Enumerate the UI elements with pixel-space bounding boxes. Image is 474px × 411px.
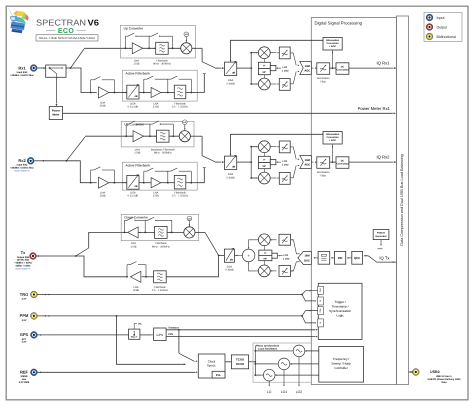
svg-text:0°: 0° [264, 252, 266, 255]
svg-text:Digital Signal Processing: Digital Signal Processing [315, 21, 363, 26]
svg-text:0-31.5dB: 0-31.5dB [128, 195, 139, 198]
svg-text:dB: dB [232, 166, 235, 169]
svg-text:LO: LO [185, 33, 188, 36]
svg-text:Synch.: Synch. [207, 364, 216, 368]
svg-text:TCXO: TCXO [236, 357, 245, 361]
svg-text:Out: Out [319, 308, 322, 312]
svg-text:PIR: PIR [338, 256, 343, 260]
svg-text:LO: LO [183, 121, 186, 124]
svg-text:Correction: Correction [336, 69, 349, 72]
svg-text:Filter: Filter [320, 80, 326, 83]
svg-text:Logic: Logic [336, 314, 344, 318]
svg-text:Model 200XA-6: Model 200XA-6 [14, 170, 30, 173]
svg-text:0-34dB: 0-34dB [226, 82, 235, 85]
svg-text:Rx2: Rx2 [18, 158, 26, 163]
svg-text:sine: sine [22, 378, 27, 381]
svg-text:Trigger /: Trigger / [334, 300, 346, 304]
svg-text:Output: Output [437, 26, 448, 30]
svg-text:USB0: USB0 [430, 370, 440, 374]
svg-text:LO: LO [188, 217, 191, 220]
svg-text:90°: 90° [262, 71, 266, 74]
svg-text:ACT: ACT [22, 338, 27, 341]
svg-text:Input 50Ω: Input 50Ω [17, 71, 28, 74]
svg-text:3.3V: 3.3V [22, 319, 27, 322]
svg-text:Controller: Controller [334, 366, 347, 370]
svg-text:PPS: PPS [168, 333, 173, 336]
svg-text:0dBm > 6GHz: 0dBm > 6GHz [16, 265, 32, 268]
svg-text:Correction: Correction [336, 163, 349, 166]
svg-text:Synchronization: Synchronization [329, 309, 351, 313]
svg-text:Output 50Ω: Output 50Ω [17, 256, 30, 259]
svg-text:Data: Data [442, 381, 448, 384]
svg-text:ADC: ADC [304, 164, 310, 167]
svg-text:Timestamp /: Timestamp / [332, 305, 349, 309]
svg-text:LO2: LO2 [296, 390, 303, 394]
svg-text:16M: 16M [304, 255, 310, 258]
svg-text:90°: 90° [263, 257, 267, 260]
svg-text:Active Filterbank: Active Filterbank [126, 163, 151, 167]
svg-text:90°: 90° [262, 165, 266, 168]
svg-text:0.5 - 7.25GHz: 0.5 - 7.25GHz [172, 195, 189, 198]
svg-text:| LO2: | LO2 [283, 164, 290, 167]
svg-text:+10dBm < 6GHz: +10dBm < 6GHz [14, 262, 32, 265]
svg-text:Data Compression and Dual USB: Data Compression and Dual USB Bus Load B… [400, 154, 404, 245]
svg-text:Power: Power [52, 110, 60, 113]
svg-text:USB PD (Power Delivery 15W): USB PD (Power Delivery 15W) [428, 378, 461, 381]
svg-text:DC: DC [138, 323, 142, 326]
svg-text:17dB: 17dB [134, 152, 140, 155]
svg-text:Up Converter: Up Converter [124, 27, 145, 31]
svg-text:0-31.5dB: 0-31.5dB [128, 106, 139, 109]
svg-text:Local Oscillators: Local Oscillators [258, 348, 278, 351]
svg-text:9kHz - 300MHz: 9kHz - 300MHz [154, 152, 173, 155]
svg-text:Generator: Generator [375, 235, 386, 238]
svg-text:OCXO: OCXO [236, 362, 245, 366]
svg-text:ECO: ECO [58, 28, 75, 35]
svg-text:16M: 16M [305, 65, 311, 68]
svg-text:16VDC Max: 16VDC Max [17, 259, 30, 262]
svg-text:Model 200XA-6: Model 200XA-6 [15, 267, 31, 270]
svg-text:ADC: ADC [304, 70, 310, 73]
svg-text:25dB: 25dB [100, 105, 106, 108]
svg-text:+20dBm / 16VDC Max: +20dBm / 16VDC Max [10, 74, 34, 77]
svg-text:Sweep / Hopp: Sweep / Hopp [331, 362, 351, 366]
svg-text:DAC: DAC [304, 260, 310, 263]
svg-text:17dB: 17dB [153, 195, 159, 198]
svg-text:V6: V6 [88, 18, 100, 28]
svg-text:0-34dB: 0-34dB [226, 176, 235, 179]
svg-text:dB: dB [134, 185, 137, 188]
svg-text:Timebase: Timebase [168, 326, 179, 329]
svg-text:Frequency /: Frequency / [333, 357, 349, 361]
svg-text:9kHz - 300MHz: 9kHz - 300MHz [152, 245, 171, 248]
svg-text:17dB: 17dB [133, 63, 139, 66]
svg-text:+ AGC: + AGC [329, 45, 337, 48]
svg-text:SPECTRAN: SPECTRAN [36, 18, 86, 28]
svg-text:Out: Out [319, 288, 322, 292]
svg-text:3.3V: 3.3V [22, 341, 27, 344]
svg-text:+20dBm / 16VDC Max: +20dBm / 16VDC Max [10, 167, 34, 170]
svg-text:PLL: PLL [216, 373, 222, 377]
svg-text:0°: 0° [263, 159, 265, 162]
svg-text:Active Filterbank: Active Filterbank [126, 71, 151, 75]
svg-text:Bias-T: Bias-T [131, 336, 138, 339]
svg-text:Tx: Tx [21, 250, 26, 255]
svg-text:25dB: 25dB [133, 289, 139, 292]
svg-text:| LO2: | LO2 [283, 70, 290, 73]
svg-text:Input: Input [437, 16, 445, 20]
svg-text:0°: 0° [263, 65, 265, 68]
svg-text:Rx1: Rx1 [18, 65, 26, 70]
svg-text:QEC: QEC [354, 256, 360, 260]
svg-text:17dB: 17dB [153, 106, 159, 109]
svg-text:PPM: PPM [20, 313, 29, 318]
svg-text:25dB: 25dB [100, 195, 106, 198]
svg-text:REF: REF [20, 370, 29, 375]
svg-text:| LO2: | LO2 [284, 257, 291, 260]
svg-text:GPS: GPS [20, 332, 29, 337]
svg-text:10MHz: 10MHz [20, 375, 28, 378]
svg-text:LO: LO [267, 390, 272, 394]
svg-text:TRG: TRG [20, 292, 28, 297]
svg-text:16M: 16M [305, 159, 311, 162]
svg-text:Power Meter Rx1: Power Meter Rx1 [358, 106, 391, 111]
svg-text:IQ Tx: IQ Tx [379, 255, 390, 260]
svg-text:Input 50Ω: Input 50Ω [17, 164, 28, 167]
svg-text:0.5 - 7.25GHz: 0.5 - 7.25GHz [152, 289, 169, 292]
svg-text:0-34dB: 0-34dB [225, 269, 234, 272]
svg-text:LO1: LO1 [281, 390, 288, 394]
svg-text:3.3V: 3.3V [22, 297, 27, 300]
svg-text:IQ Rx1: IQ Rx1 [376, 61, 390, 66]
svg-text:9kHz - 300MHz: 9kHz - 300MHz [153, 63, 172, 66]
svg-text:dB: dB [230, 258, 233, 261]
svg-text:17dB: 17dB [130, 245, 136, 248]
svg-text:0.5 - 7.25GHz: 0.5 - 7.25GHz [172, 106, 189, 109]
svg-text:Up Converter: Up Converter [124, 123, 145, 127]
svg-text:+ AGC: + AGC [329, 139, 337, 142]
svg-text:IQ Rx2: IQ Rx2 [376, 155, 390, 160]
svg-text:Filter: Filter [320, 174, 326, 177]
svg-text:USB 3.2 Gen 1,: USB 3.2 Gen 1, [436, 375, 453, 378]
svg-text:Meter: Meter [52, 113, 59, 116]
svg-text:dB: dB [134, 95, 137, 98]
svg-text:REAL-TIME SPECTRUM ANALYZER: REAL-TIME SPECTRUM ANALYZER [39, 36, 95, 40]
svg-text:Bidirectional: Bidirectional [437, 35, 457, 39]
svg-text:Down Converter: Down Converter [124, 216, 149, 220]
svg-text:3.3V RMS: 3.3V RMS [19, 381, 30, 384]
svg-text:GPS: GPS [157, 333, 164, 337]
svg-text:dB: dB [232, 72, 235, 75]
